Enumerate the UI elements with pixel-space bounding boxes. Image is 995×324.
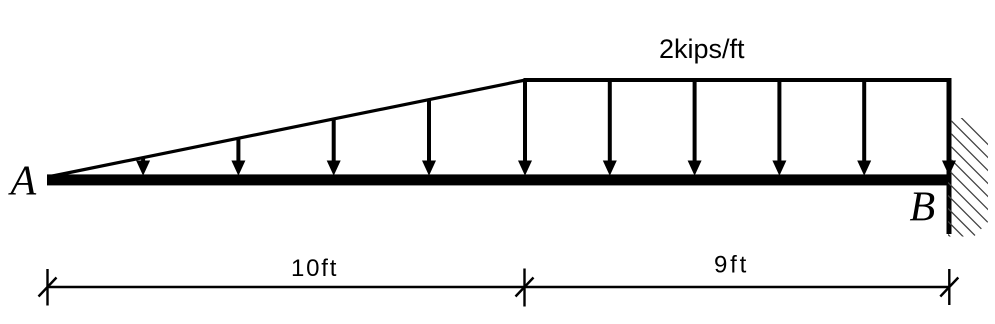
load arrow 5: [518, 80, 532, 176]
dimension tick slash middle: [516, 278, 534, 297]
load arrow 4: [422, 100, 436, 176]
load arrow 3: [327, 119, 341, 176]
load arrow 10: [942, 80, 956, 176]
dimension extension line left: [46, 269, 48, 306]
wall support line at B: [947, 78, 952, 234]
dimension tick slash left: [39, 278, 57, 297]
svg-text:A: A: [8, 159, 37, 205]
load arrow 6: [603, 80, 617, 176]
dimension extension line middle: [523, 269, 525, 307]
load arrow 1: [136, 158, 150, 176]
dimension line: [48, 286, 950, 288]
load arrow 9: [857, 80, 871, 176]
svg-text:B: B: [910, 185, 936, 231]
load arrow 8: [772, 80, 786, 176]
beam AB: [47, 174, 952, 185]
svg-text:2kips/ft: 2kips/ft: [659, 34, 745, 64]
triangular load top line: [48, 80, 526, 177]
dimension tick slash right: [940, 278, 958, 297]
dimension extension line right: [948, 269, 950, 305]
svg-text:9ft: 9ft: [714, 252, 749, 279]
load arrow 7: [688, 80, 702, 176]
load arrow 2: [231, 138, 245, 176]
wall hatching: [948, 105, 991, 278]
uniform load top line: [524, 78, 952, 82]
svg-text:10ft: 10ft: [291, 255, 338, 282]
